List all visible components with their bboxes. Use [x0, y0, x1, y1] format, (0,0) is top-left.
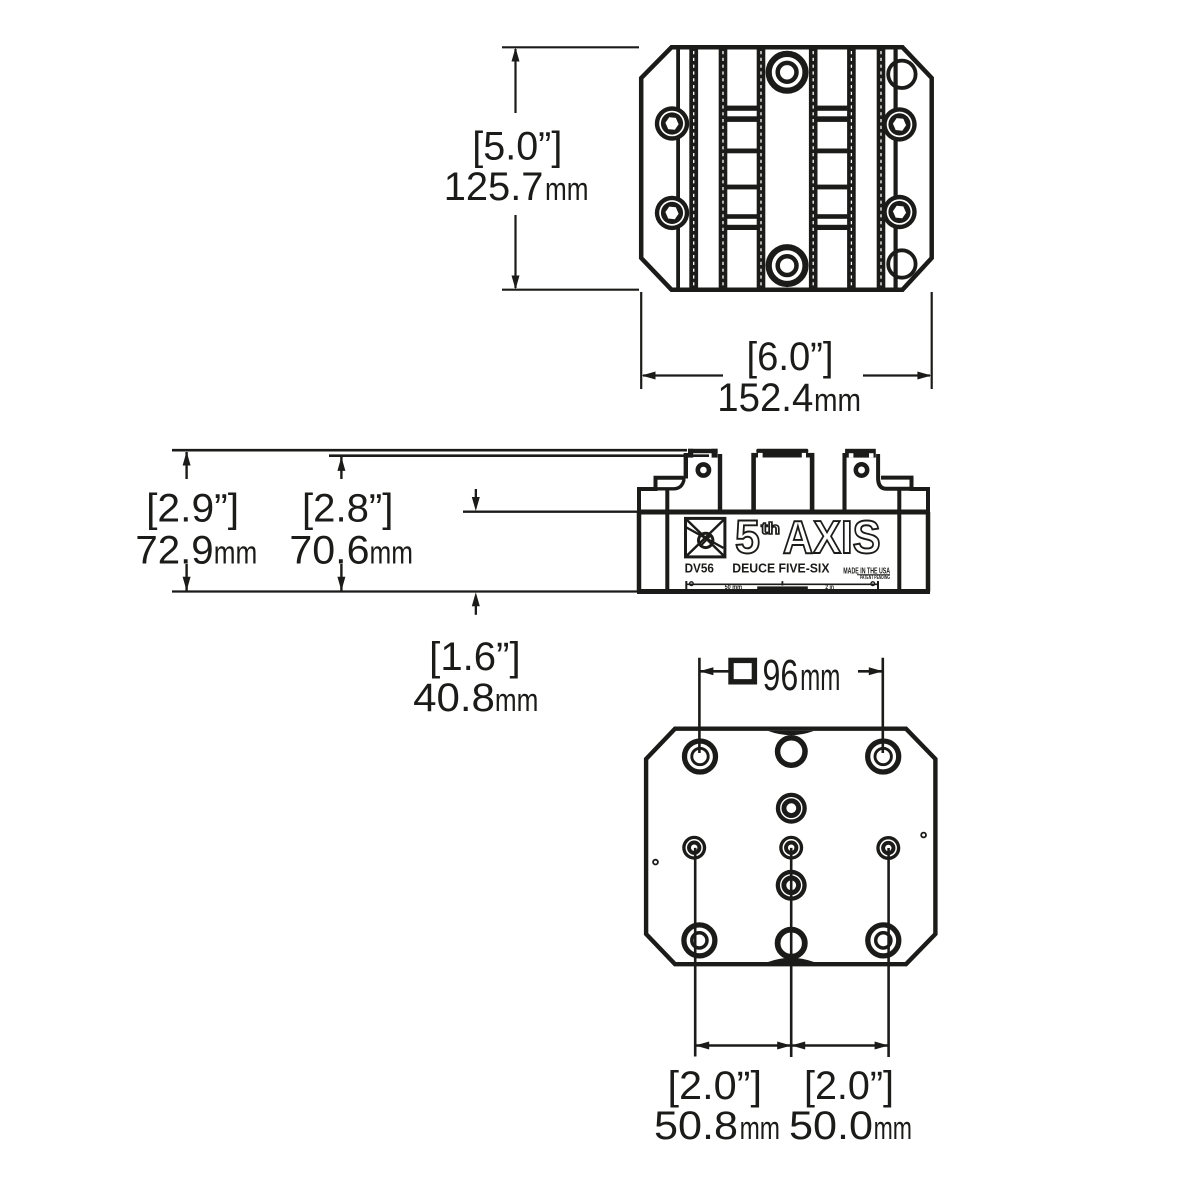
svg-text:PATENT PENDING: PATENT PENDING — [860, 575, 890, 581]
svg-text:[2.0”]: [2.0”] — [804, 1064, 894, 1108]
svg-text:2 in: 2 in — [825, 584, 834, 591]
svg-text:50.0mm: 50.0mm — [789, 1104, 912, 1148]
svg-text:DV56: DV56 — [685, 561, 714, 576]
svg-text:[2.8”]: [2.8”] — [302, 486, 393, 530]
svg-text:152.4mm: 152.4mm — [717, 376, 861, 420]
svg-text:[1.6”]: [1.6”] — [429, 635, 520, 679]
svg-text:[6.0”]: [6.0”] — [747, 335, 834, 379]
svg-text:[5.0”]: [5.0”] — [472, 125, 562, 169]
svg-text:th: th — [761, 519, 780, 538]
svg-text:5: 5 — [735, 510, 760, 563]
svg-text:AXIS: AXIS — [783, 511, 881, 563]
svg-text:72.9mm: 72.9mm — [135, 528, 257, 572]
svg-text:DEUCE FIVE-SIX: DEUCE FIVE-SIX — [732, 561, 829, 576]
svg-text:[2.9”]: [2.9”] — [146, 486, 239, 530]
svg-text:70.6mm: 70.6mm — [289, 528, 413, 572]
svg-text:50 mm: 50 mm — [725, 584, 743, 591]
svg-text:125.7mm: 125.7mm — [444, 165, 589, 209]
svg-text:96mm: 96mm — [763, 652, 841, 700]
svg-text:40.8mm: 40.8mm — [413, 676, 538, 720]
svg-text:[2.0”]: [2.0”] — [668, 1064, 763, 1108]
svg-text:50.8mm: 50.8mm — [654, 1104, 780, 1148]
